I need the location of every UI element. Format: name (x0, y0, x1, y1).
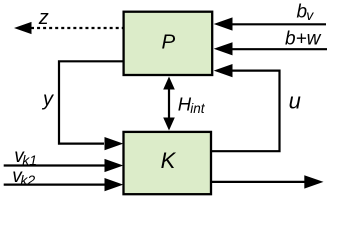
wire H_int (double arrow between P and K) (163, 77, 175, 131)
label v_k1 (14, 146, 37, 168)
block P (124, 12, 213, 75)
label u (289, 89, 301, 114)
label P (161, 31, 175, 54)
label b+w (285, 29, 322, 50)
wire u (feedback from K to P) (211, 64, 280, 151)
svg-text:u: u (289, 89, 301, 114)
svg-text:b+w: b+w (285, 29, 322, 50)
label K (161, 148, 177, 173)
wire v_k1 (input to K) (4, 159, 124, 172)
svg-text:k2: k2 (20, 172, 35, 188)
svg-text:v: v (306, 7, 314, 23)
label y (41, 88, 54, 110)
svg-text:y: y (41, 88, 54, 110)
svg-text:P: P (161, 31, 175, 54)
wire z (dashed, to upper left) (14, 22, 123, 34)
wire b_v (input to P, top right) (214, 17, 326, 30)
label H_int (178, 93, 206, 116)
svg-text:int: int (190, 101, 206, 116)
wire output (from K to right) (211, 175, 324, 188)
label b_v (297, 1, 315, 23)
svg-text:k1: k1 (22, 152, 37, 168)
svg-text:K: K (161, 148, 177, 173)
wire b+w (input to P, second right) (214, 42, 327, 55)
wire v_k2 (input to K) (4, 178, 124, 191)
block K (124, 132, 212, 194)
label v_k2 (12, 166, 35, 188)
wire y (output of P into K) (59, 61, 124, 150)
svg-text:z: z (38, 7, 49, 29)
label z (38, 7, 49, 29)
